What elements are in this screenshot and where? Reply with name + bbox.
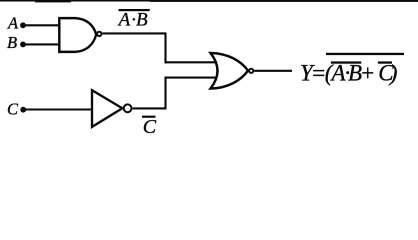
svg-text:+: + <box>360 60 376 85</box>
svg-text:A: A <box>117 10 131 31</box>
svg-text:A: A <box>7 14 19 33</box>
NAND gate U1 body <box>59 18 96 52</box>
wire input C <box>23 108 93 110</box>
NOT gate U2 triangle <box>92 90 122 127</box>
node dot B <box>20 42 26 48</box>
NOT gate U2 output bubble <box>124 104 132 112</box>
wire NAND output horizontal <box>103 32 167 34</box>
wire NOT output vertical rise <box>164 77 166 109</box>
node dot C <box>20 107 26 113</box>
output expression outer overbar <box>326 53 404 55</box>
NOR gate U3 output bubble <box>249 69 253 73</box>
wire input B <box>23 43 61 45</box>
node dot A <box>20 22 26 28</box>
wire NOR upper input <box>165 61 218 63</box>
wire NAND output vertical drop <box>164 33 166 63</box>
label overbar C <box>142 116 156 118</box>
label overbar A·B <box>119 9 150 11</box>
svg-text:B: B <box>136 10 148 31</box>
wire NOR lower input <box>165 77 218 79</box>
wire NOT output horizontal <box>133 107 167 109</box>
svg-text:B: B <box>7 33 17 52</box>
svg-text:C: C <box>143 116 157 138</box>
output expression inner overbar over C <box>378 61 392 63</box>
wire input A <box>23 24 61 26</box>
output expression inner overbar over A·B <box>331 61 361 63</box>
svg-text:): ) <box>388 60 398 85</box>
svg-text:C: C <box>7 100 19 119</box>
NOR gate U3 body <box>211 53 249 89</box>
NAND gate U1 output bubble <box>97 32 101 36</box>
wire NOR output <box>254 70 292 72</box>
